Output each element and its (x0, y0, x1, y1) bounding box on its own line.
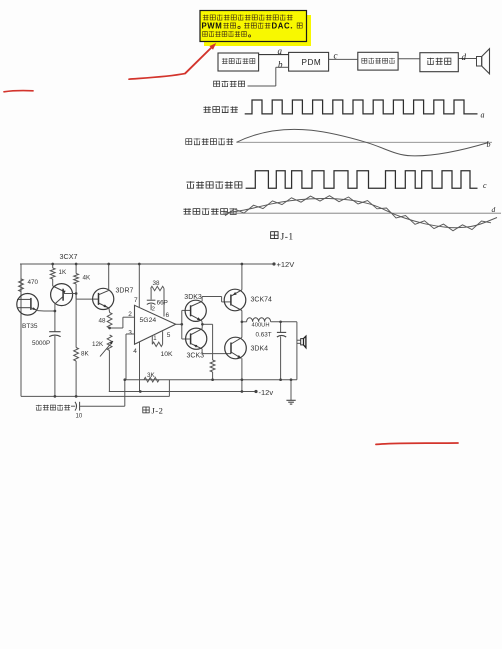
svg-text:470: 470 (28, 279, 39, 286)
svg-text:PWM: PWM (202, 22, 223, 31)
svg-text:5: 5 (167, 332, 171, 339)
svg-text:b: b (278, 60, 283, 70)
svg-text:3DK4: 3DK4 (251, 346, 269, 353)
svg-text:10: 10 (76, 414, 83, 420)
svg-text:+12V: +12V (277, 260, 295, 269)
svg-text:BT35: BT35 (22, 323, 38, 330)
svg-text:a: a (481, 111, 485, 120)
svg-text:400UH: 400UH (252, 323, 270, 329)
svg-text:DAC: DAC (272, 22, 291, 31)
svg-text:1K: 1K (59, 269, 68, 276)
svg-text:5000P: 5000P (32, 340, 50, 347)
svg-text:d: d (492, 205, 496, 214)
svg-text:PDM: PDM (302, 58, 322, 67)
svg-text:J-1: J-1 (281, 233, 294, 243)
svg-text:3DR7: 3DR7 (116, 288, 134, 295)
svg-text:d: d (462, 52, 467, 62)
svg-text:3CK3: 3CK3 (187, 353, 205, 360)
svg-text:4: 4 (133, 348, 137, 355)
svg-text:J-2: J-2 (152, 406, 164, 416)
svg-text:2: 2 (152, 306, 155, 312)
svg-text:-12v: -12v (259, 388, 274, 397)
svg-text:3DK3: 3DK3 (184, 294, 202, 301)
svg-text:5G24: 5G24 (140, 317, 157, 324)
svg-text:4K: 4K (83, 275, 92, 282)
svg-text:a: a (278, 46, 283, 56)
svg-text:c: c (483, 181, 487, 190)
svg-text:3CK74: 3CK74 (251, 297, 273, 304)
svg-text:38: 38 (153, 280, 161, 287)
svg-text:6: 6 (166, 312, 170, 319)
svg-text:3CX7: 3CX7 (60, 252, 78, 261)
svg-text:0.63T: 0.63T (256, 332, 272, 339)
svg-text:12K: 12K (92, 341, 104, 348)
svg-text:2: 2 (128, 311, 132, 318)
svg-text:7: 7 (134, 297, 138, 304)
svg-text:c: c (334, 51, 338, 61)
svg-text:3: 3 (128, 330, 132, 337)
svg-text:3K: 3K (147, 372, 156, 379)
svg-text:1: 1 (153, 336, 157, 342)
svg-text:66P: 66P (157, 299, 168, 306)
svg-text:10K: 10K (161, 351, 174, 358)
svg-text:8K: 8K (81, 351, 90, 358)
svg-text:48: 48 (99, 318, 107, 325)
svg-text:b: b (487, 140, 491, 149)
